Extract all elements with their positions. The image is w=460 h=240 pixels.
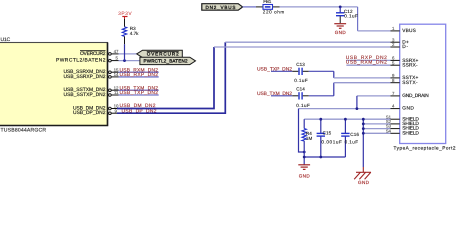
svg-text:USB_DP_DN2: USB_DP_DN2 [73,110,106,116]
connector pin 9 SSTX+ [391,73,419,81]
wire DN2_VBUS to FB1 [243,6,256,8]
capacitor C15 0.001uF [317,119,342,157]
svg-text:SSRX-: SSRX- [402,62,418,68]
svg-text:PWRCTL2_BATEN2: PWRCTL2_BATEN2 [144,59,188,64]
svg-text:1: 1 [392,26,395,31]
pin USB_SSTXP_DN2 pin11 [64,90,120,98]
svg-text:0.1uF: 0.1uF [294,78,308,83]
svg-text:0.1uF: 0.1uF [345,139,359,144]
wire shield tie vertical down to chassis [362,119,364,167]
svg-text:USB_SSRXP_DN2: USB_SSRXP_DN2 [64,74,106,80]
pin USB_DM_DN2 pin10 [73,104,119,112]
connector pin 1 VBUS [391,26,416,34]
wire S3 row [363,128,390,130]
svg-text:PWRCTL2/BATEN2: PWRCTL2/BATEN2 [56,58,106,64]
chip U1 body [0,43,108,126]
ferrite bead FB1 220 ohm [256,0,284,14]
wire C14 to jog [309,95,334,97]
junction dot elbow/R4 [303,151,306,154]
svg-text:220 ohm: 220 ohm [263,9,285,14]
junction dot S1 [362,118,365,121]
svg-text:OVERCUR2: OVERCUR2 [147,52,179,57]
chip side stub wire row14 [119,76,159,78]
svg-text:TypeA_receptacle_Port2: TypeA_receptacle_Port2 [394,146,456,151]
svg-text:C14: C14 [296,87,305,92]
pin USB_DP_DN2 pin9 [73,108,118,116]
junction dot S4 [362,132,365,135]
resistor R3 4.7k [122,19,139,61]
connector pin 6 SSRX+ [391,56,419,65]
svg-text:GND: GND [358,180,370,185]
connector pin 4 GND [391,104,415,112]
svg-text:GND: GND [299,173,311,178]
connector pin S4 SHIELD [386,128,419,136]
wire TXP stub to C13 [271,70,292,72]
port DN2_VBUS [202,4,243,11]
svg-text:OVERCUR2: OVERCUR2 [80,51,106,57]
svg-text:4: 4 [392,104,395,109]
junction dot R4 bottom [303,156,306,159]
wire GND_DRAIN vertical to GND row [356,96,358,109]
svg-text:5: 5 [116,56,119,61]
svg-text:D-: D- [402,44,408,50]
connector pin S1 SHIELD [386,114,419,122]
power port 3P3V [118,11,132,19]
wire FB1 to corner [280,6,358,8]
wire SSRX+ stub [346,59,390,61]
svg-text:VBUS: VBUS [402,28,416,34]
pin USB_SSRXM_DN2 pin15 [64,67,120,75]
junction dot S2 [362,123,365,126]
junction dot pin4/pin7 [356,107,359,110]
svg-text:DN2_VBUS: DN2_VBUS [206,5,236,10]
wire USB_DP long [117,42,225,113]
chip side stub wire row12 [119,89,159,91]
wire PWRCTL2 pin5 to port [119,60,141,62]
svg-text:USB_TXP_DN2: USB_TXP_DN2 [120,90,159,96]
svg-text:FB1: FB1 [263,0,271,4]
svg-text:8: 8 [392,78,395,83]
svg-text:14: 14 [114,72,119,77]
wire C13 to jog [309,70,334,72]
svg-text:SHIELD: SHIELD [402,130,419,136]
svg-text:USB_RXP_DN2: USB_RXP_DN2 [120,72,159,78]
connector pin 3 D+ [391,37,409,45]
wire TXM stub to C14 [271,95,292,97]
wire D+ row to connector [225,41,390,43]
junction dot C15 top [319,118,322,121]
wire GND elbow down [299,109,305,152]
port OVERCUR2 [137,50,183,57]
svg-text:47: 47 [114,49,119,54]
svg-text:GND: GND [402,106,414,112]
chassis ground GND right [354,167,371,185]
svg-text:U1C: U1C [1,37,11,43]
svg-text:C15: C15 [323,130,332,135]
wire GND pin4 row [299,108,391,110]
port PWRCTL2_BATEN2 [140,57,196,64]
svg-text:S4: S4 [386,128,392,133]
capacitor C12 0.1uF [336,7,358,23]
ground GND under C12 [334,24,346,36]
wire SSRX- stub [346,64,390,66]
chip side stub wire row15 [119,71,159,73]
connector pin 7 GND_DRAIN [391,91,430,99]
svg-text:0.1uF: 0.1uF [296,103,310,108]
connector pin S2 SHIELD [386,119,419,127]
pin PWRCTL2/BATEN2 pin5 [56,56,119,64]
svg-text:7: 7 [392,91,395,96]
wire jog down to SSTX+ row [333,71,335,78]
ground GND left [298,165,310,179]
connector pin 8 SSTX- [391,78,418,86]
wire SSTX+ row to connector [334,77,391,79]
svg-text:11: 11 [114,90,119,95]
wire S4 row [363,132,390,134]
resistor R4 1M [302,119,312,164]
svg-text:TUSB8044ARGCR: TUSB8044ARGCR [1,128,47,134]
junction dot C15 bottom [319,156,322,159]
capacitor C16 0.1uF [341,119,359,157]
wire D- row to connector [214,46,391,48]
svg-text:1M: 1M [306,136,313,141]
svg-text:C16: C16 [350,132,359,137]
svg-text:GND_DRAIN: GND_DRAIN [402,93,429,99]
wire S1 row [363,118,390,120]
wire bottom rail [304,156,345,158]
connector pin S3 SHIELD [386,124,419,132]
svg-text:4.7k: 4.7k [130,31,139,36]
svg-text:2: 2 [392,42,395,47]
wire S2 row [363,123,390,125]
wire SSTX- row to connector [334,82,391,84]
wire OVERCUR2 pin47 to port [119,53,138,55]
junction dot S3 [362,127,365,130]
pin OVERCUR2 pin47 [80,49,119,57]
wire jog up to SSTX- row [333,83,335,96]
wire USB_DM long [117,47,214,109]
junction dot C16 top [344,118,347,121]
svg-text:USB_SSTXP_DN2: USB_SSTXP_DN2 [64,92,106,98]
wire shield rail [304,118,363,120]
capacitor C13 0.1uF [292,62,308,83]
wire to VBUS pin [358,30,391,32]
pin USB_SSRXP_DN2 pin14 [64,72,120,80]
svg-text:0.1uF: 0.1uF [344,14,358,19]
connector pin 2 D- [391,42,409,50]
svg-text:C13: C13 [296,62,305,67]
svg-text:GND: GND [335,30,347,35]
junction dot C12 [339,6,342,9]
connector TypeA_receptacle_Port2 [394,24,456,150]
wire corner down to VBUS row [357,7,359,31]
junction dot R3/PWRCTL2 [123,59,126,62]
svg-text:SSTX-: SSTX- [402,80,418,86]
svg-text:0.001uF: 0.001uF [321,139,342,144]
chip side stub wire row11 [119,94,159,96]
connector pin 5 SSRX- [391,60,418,68]
wire GND_DRAIN row [357,95,391,97]
capacitor C14 0.1uF [292,87,310,109]
pin USB_SSTXM_DN2 pin12 [64,85,120,93]
svg-text:5: 5 [392,60,395,65]
